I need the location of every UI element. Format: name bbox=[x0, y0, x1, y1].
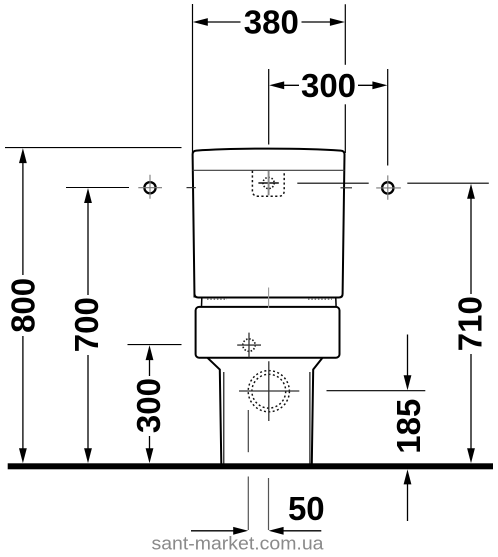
dim 800 line and arrows bbox=[19, 148, 27, 463]
flush button circle bbox=[263, 177, 274, 188]
right fixing hole circle bbox=[382, 182, 393, 193]
dim 380 line and arrows bbox=[193, 18, 345, 26]
right fixing hole crosshair bbox=[376, 175, 401, 199]
tank to bowl junction left bbox=[201, 298, 203, 306]
seat fixing hole crosshair bbox=[237, 333, 261, 358]
outlet outer dotted circle bbox=[248, 371, 289, 412]
dim 380 left extension line bbox=[192, 4, 194, 153]
dim 710 extension line inner bbox=[297, 182, 368, 184]
pedestal left inner line bbox=[223, 372, 225, 464]
pedestal right outer edge bbox=[312, 358, 323, 464]
outlet inner dotted circle bbox=[252, 374, 286, 408]
drain pipe hidden line above ground bbox=[247, 410, 249, 452]
dim 185 lower line and arrow bbox=[404, 469, 412, 521]
left fixing hole crosshair bbox=[138, 175, 162, 199]
centerline tick at tank right edge bbox=[341, 187, 353, 189]
outlet crosshair bbox=[239, 361, 299, 421]
junction hidden dotted left bbox=[207, 298, 227, 300]
svg-text:300: 300 bbox=[130, 378, 167, 433]
dim 700 line and arrows bbox=[84, 188, 92, 463]
dim 300 top line and arrows bbox=[269, 81, 387, 89]
dim 300 left extension line bbox=[128, 344, 182, 346]
cistern tank outline bbox=[193, 149, 345, 298]
junction hidden dotted right bbox=[308, 298, 332, 300]
cistern lid joint line bbox=[193, 169, 345, 171]
dim 300 left line and arrows bbox=[146, 345, 154, 463]
svg-text:300: 300 bbox=[301, 67, 356, 104]
dim 700 extension line bbox=[66, 187, 129, 189]
svg-text:185: 185 bbox=[390, 399, 427, 454]
dim 50 left line and arrow bbox=[191, 527, 248, 535]
dim 710 line and arrows bbox=[467, 184, 475, 464]
dim 300 top label halo bbox=[300, 65, 358, 105]
bowl rim block bbox=[196, 307, 340, 358]
vertical centerline dashes bbox=[268, 288, 270, 309]
pedestal right inner line bbox=[309, 372, 311, 464]
svg-text:700: 700 bbox=[68, 297, 105, 352]
pedestal left outer edge bbox=[208, 358, 222, 464]
dim 185 extension line bbox=[327, 390, 426, 392]
dim 800 extension line bbox=[5, 147, 182, 149]
flush button cross horizontal bbox=[258, 182, 278, 184]
svg-text:50: 50 bbox=[288, 490, 325, 527]
flush button cross vertical centerline bbox=[268, 171, 270, 196]
dim 710 extension line outer bbox=[407, 182, 489, 184]
centerline tick at tank left edge bbox=[187, 187, 196, 189]
tank to bowl junction right bbox=[335, 298, 337, 306]
svg-text:sant-market.com.ua: sant-market.com.ua bbox=[152, 533, 325, 554]
ground line bbox=[8, 463, 493, 469]
left fixing hole circle bbox=[144, 182, 155, 193]
dim 50 right line and arrow bbox=[269, 527, 322, 535]
dim 300 top extension right bbox=[387, 69, 389, 166]
seat fixing hole dotted circle bbox=[243, 339, 255, 351]
dim 185 upper line and arrow bbox=[404, 335, 412, 391]
svg-text:710: 710 bbox=[452, 296, 489, 351]
flush button dotted outline bbox=[252, 171, 284, 196]
drain pipe line below ground left bbox=[247, 477, 249, 531]
svg-text:380: 380 bbox=[244, 4, 299, 41]
dim 300 top extension left (centerline) bbox=[268, 69, 270, 145]
dim 380 right extension line bbox=[344, 4, 346, 153]
svg-text:800: 800 bbox=[4, 278, 41, 333]
drain centerline below ground bbox=[268, 478, 270, 530]
